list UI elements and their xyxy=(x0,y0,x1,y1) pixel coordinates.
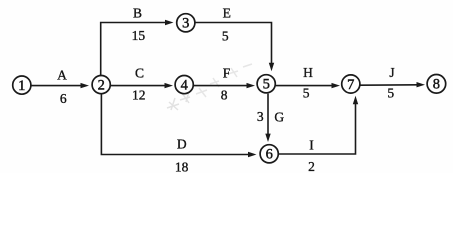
arrowhead H xyxy=(332,83,341,88)
svg-text:G: G xyxy=(274,110,284,125)
watermark squiggle 1 xyxy=(167,91,190,110)
wire I (6 right then up to 7) xyxy=(278,103,355,154)
wire E (3 right then down to 5) xyxy=(195,23,272,65)
svg-text:5: 5 xyxy=(303,86,310,101)
svg-text:6: 6 xyxy=(266,147,273,163)
watermark squiggle 2 xyxy=(196,64,252,97)
wire J (7 to 8) xyxy=(360,84,418,86)
svg-text:5: 5 xyxy=(387,86,394,101)
svg-text:18: 18 xyxy=(175,159,189,173)
svg-text:F: F xyxy=(223,66,231,81)
arrowhead B xyxy=(165,20,174,25)
wire D (2 down then right to 6) xyxy=(101,94,249,155)
wire G (5 down to 6) xyxy=(267,94,269,135)
arrowhead I xyxy=(353,96,358,104)
svg-text:H: H xyxy=(303,65,313,80)
node 6 xyxy=(260,145,278,163)
svg-text:3: 3 xyxy=(182,16,189,32)
svg-text:2: 2 xyxy=(98,77,105,93)
arrowhead A xyxy=(81,83,90,88)
svg-text:8: 8 xyxy=(433,77,440,93)
arrowhead E xyxy=(269,63,274,71)
svg-text:5: 5 xyxy=(263,77,270,93)
svg-text:I: I xyxy=(309,138,314,153)
node 7 xyxy=(342,75,360,93)
svg-text:C: C xyxy=(135,66,144,81)
svg-text:1: 1 xyxy=(18,78,25,94)
arrowhead J xyxy=(417,82,426,87)
svg-text:8: 8 xyxy=(221,88,228,103)
svg-text:D: D xyxy=(177,137,187,152)
node 8 xyxy=(427,75,446,94)
arrowhead F xyxy=(247,83,256,88)
svg-text:2: 2 xyxy=(308,159,315,173)
wire F (4 to 5) xyxy=(193,85,248,87)
svg-text:7: 7 xyxy=(347,77,354,93)
arrowhead D xyxy=(248,152,257,157)
svg-text:3: 3 xyxy=(257,109,264,124)
svg-text:6: 6 xyxy=(60,91,67,106)
svg-text:B: B xyxy=(133,5,142,20)
wire H (5 to 7) xyxy=(275,85,333,87)
node 4 xyxy=(175,76,193,94)
svg-text:12: 12 xyxy=(132,88,146,103)
svg-text:E: E xyxy=(223,6,231,21)
node 3 xyxy=(177,14,195,32)
wire C (2 to 4) xyxy=(110,85,166,87)
svg-text:5: 5 xyxy=(222,28,229,43)
svg-text:4: 4 xyxy=(181,77,189,93)
svg-text:15: 15 xyxy=(132,28,146,43)
svg-text:A: A xyxy=(57,67,67,82)
arrowhead C xyxy=(165,83,174,88)
node 1 xyxy=(13,76,31,94)
wire B (2 up then right to 3) xyxy=(101,23,167,77)
node 5 xyxy=(257,75,275,93)
node 2 xyxy=(92,76,110,94)
svg-text:J: J xyxy=(389,65,394,80)
wire A (1 to 2) xyxy=(31,85,83,87)
arrowhead G xyxy=(265,134,270,142)
